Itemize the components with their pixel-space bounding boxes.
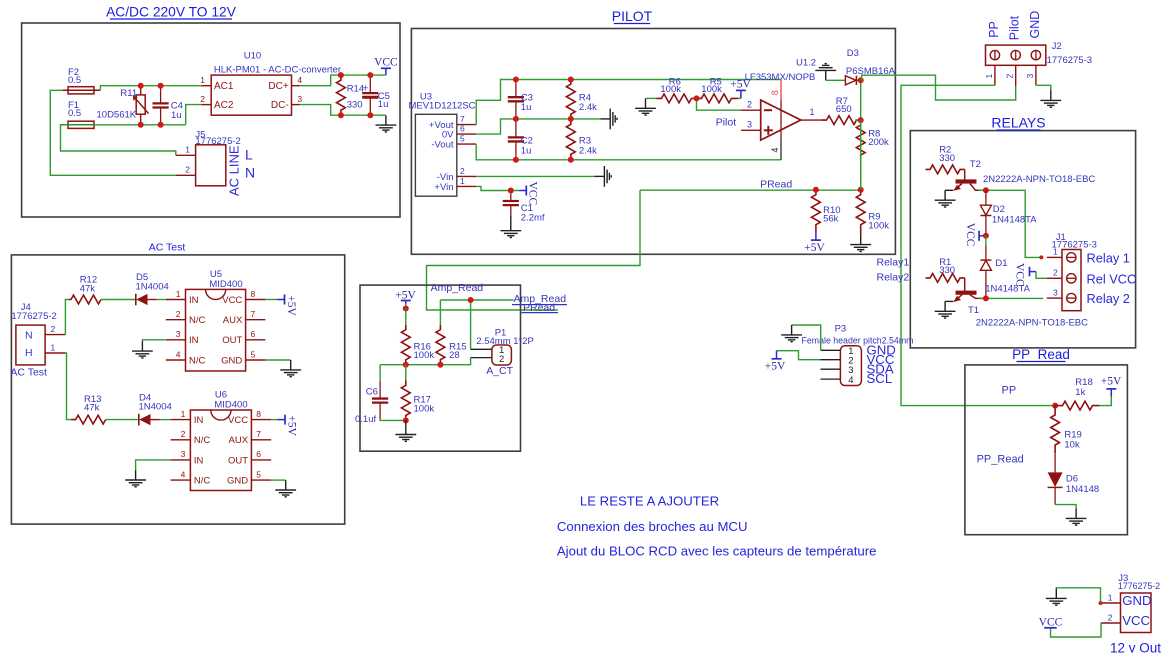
capacitor C5 — [369, 75, 371, 93]
wire -Vout bottom rail to op-amp pin4 — [476, 144, 781, 160]
wire C6 to R17 bottom — [380, 419, 406, 422]
svg-text:MID400: MID400 — [209, 279, 242, 290]
svg-text:4: 4 — [297, 75, 302, 85]
svg-text:8: 8 — [770, 90, 780, 95]
junction node VCC D1 D2 — [983, 233, 989, 239]
resistor R6 — [646, 97, 657, 99]
U1.2 pin 3 non-inverting — [741, 129, 761, 131]
svg-text:VCC: VCC — [374, 56, 398, 68]
svg-text:2: 2 — [460, 166, 465, 176]
svg-text:8: 8 — [256, 409, 261, 419]
connector J2 1776275-3 — [986, 45, 1046, 65]
svg-text:GND: GND — [221, 355, 242, 366]
svg-text:1N4004: 1N4004 — [139, 402, 172, 413]
diode D2 1N4148TA — [985, 190, 987, 205]
svg-text:2: 2 — [499, 354, 504, 365]
svg-text:VCC: VCC — [1039, 616, 1063, 628]
resistor R3 — [566, 119, 575, 160]
wire F2 to J5 pin2 — [50, 90, 176, 175]
svg-text:1: 1 — [51, 342, 56, 352]
U1.2 pin 2 inverting — [741, 109, 761, 111]
P3 pin 2 — [820, 359, 840, 361]
connector J3 1776275-2 — [1121, 593, 1152, 633]
junction node R6 R5 — [694, 95, 700, 101]
wire R18 to +5V — [1100, 397, 1112, 406]
svg-text:R11: R11 — [120, 88, 137, 99]
U5 pin 7 AUX — [246, 319, 266, 321]
P3 pin 4 — [820, 378, 840, 380]
junction node J3 pin1 — [1099, 601, 1103, 605]
ground — [595, 166, 612, 187]
svg-text:Female header pitch2.54mm: Female header pitch2.54mm — [802, 336, 914, 346]
svg-text:GND: GND — [227, 476, 248, 487]
resistor R8 — [856, 120, 865, 160]
wire 0V middle rail — [476, 119, 600, 134]
svg-text:+5V: +5V — [804, 242, 825, 254]
power VCC — [979, 235, 986, 237]
U6 pin 6 OUT — [251, 459, 271, 461]
wire U5 pin5 to ground — [265, 359, 290, 361]
ground — [935, 190, 956, 207]
svg-text:MEV1D1212SC: MEV1D1212SC — [408, 101, 475, 112]
connector J1 1776275-3 — [1062, 250, 1081, 311]
svg-text:1u: 1u — [521, 102, 532, 113]
ground — [935, 301, 956, 318]
wire P3 pin1 to ground — [792, 325, 821, 350]
svg-text:1: 1 — [181, 409, 186, 419]
svg-text:D2: D2 — [993, 204, 1005, 215]
svg-text:2.2mf: 2.2mf — [521, 212, 545, 223]
svg-text:3: 3 — [297, 94, 302, 104]
svg-text:7: 7 — [256, 429, 261, 439]
wire F2 to AC1 top rail — [100, 86, 201, 91]
svg-text:+Vin: +Vin — [434, 182, 453, 193]
svg-text:4: 4 — [848, 375, 853, 386]
resistor R10 — [812, 190, 821, 232]
U6 pin 2 N/C — [171, 439, 191, 441]
svg-text:Relay1: Relay1 — [877, 257, 910, 269]
svg-text:6: 6 — [251, 329, 256, 339]
U5 pin 5 GND — [246, 359, 266, 361]
svg-text:0.5: 0.5 — [68, 75, 81, 86]
svg-text:L: L — [245, 147, 253, 163]
U10 pin 2 AC2 — [201, 104, 211, 106]
svg-text:P3: P3 — [835, 324, 847, 335]
svg-text:N/C: N/C — [194, 476, 211, 487]
J2 pin 3 — [1035, 65, 1037, 85]
svg-text:GND: GND — [1122, 593, 1151, 608]
junction node R15 bottom — [437, 362, 443, 368]
svg-text:A_CT: A_CT — [486, 365, 513, 377]
block RELAYS — [910, 131, 1135, 348]
svg-text:-Vout: -Vout — [431, 140, 454, 151]
U5 pin 1 IN — [166, 299, 186, 301]
ground — [850, 235, 871, 252]
svg-text:D1: D1 — [995, 258, 1007, 269]
wire J2 pin3 to ground — [1036, 85, 1051, 91]
ground — [395, 420, 416, 441]
J2 terminal 1 — [990, 50, 999, 59]
svg-text:1N4148: 1N4148 — [1066, 484, 1099, 495]
wire PRead rail — [640, 189, 861, 191]
svg-text:3: 3 — [176, 329, 181, 339]
component U5 MID400 — [186, 289, 246, 371]
P1 pin 2 — [471, 357, 492, 359]
J1 pin 1 — [1047, 256, 1062, 258]
svg-text:4: 4 — [770, 148, 780, 153]
svg-text:LE RESTE A AJOUTER: LE RESTE A AJOUTER — [580, 494, 719, 509]
svg-text:330: 330 — [939, 153, 955, 164]
svg-text:4: 4 — [176, 349, 181, 359]
capacitor C3 — [515, 80, 517, 98]
svg-text:PRead: PRead — [760, 178, 792, 190]
svg-text:IN: IN — [194, 455, 204, 466]
power +5V — [776, 351, 778, 359]
wire AC2 to bottom rail — [186, 105, 202, 125]
component U3 MEV1D1212SC — [415, 114, 456, 196]
svg-text:DC+: DC+ — [268, 81, 288, 92]
junction node P1 branch — [468, 297, 474, 303]
wire P1 pin2 mid rail — [380, 358, 471, 365]
svg-text:PP: PP — [1002, 385, 1017, 397]
U5 pin 6 OUT — [246, 339, 266, 341]
wire J3 pin2 to VCC — [1051, 623, 1102, 637]
svg-text:DC-: DC- — [271, 100, 289, 111]
svg-text:HLK-PM01 - AC-DC-converter: HLK-PM01 - AC-DC-converter — [214, 65, 341, 76]
svg-text:Relay 2: Relay 2 — [1087, 291, 1130, 306]
svg-text:PP_Read: PP_Read — [977, 454, 1024, 466]
svg-text:MID400: MID400 — [214, 400, 247, 411]
power VCC — [520, 190, 527, 192]
svg-text:OUT: OUT — [228, 455, 248, 466]
svg-text:AUX: AUX — [223, 315, 243, 326]
svg-text:AC2: AC2 — [214, 100, 234, 111]
svg-text:1: 1 — [1108, 592, 1113, 602]
J5 pin 2 — [176, 174, 196, 176]
svg-text:N: N — [245, 164, 255, 180]
U6 pin 1 IN — [171, 419, 191, 421]
J2 pin 1 — [994, 65, 996, 85]
wire R12 to D5 — [101, 299, 136, 301]
P3 pin 3 — [820, 368, 840, 370]
ground — [600, 109, 617, 130]
ground — [132, 341, 153, 358]
svg-text:IN: IN — [189, 295, 199, 306]
ground — [275, 480, 296, 497]
svg-text:47k: 47k — [84, 402, 100, 413]
power +5V — [738, 97, 741, 99]
fuse F1 — [61, 124, 95, 126]
svg-text:1: 1 — [200, 75, 205, 85]
svg-text:1776275-3: 1776275-3 — [1047, 55, 1092, 66]
U5 pin 2 N/C — [166, 319, 186, 321]
svg-text:AUX: AUX — [229, 435, 249, 446]
svg-text:100k: 100k — [701, 84, 722, 95]
resistor R19 — [1051, 406, 1060, 454]
J1 terminal 1 — [1067, 253, 1076, 262]
svg-text:2N2222A-NPN-TO18-EBC: 2N2222A-NPN-TO18-EBC — [976, 317, 1088, 328]
svg-text:12 v Out: 12 v Out — [1110, 641, 1161, 656]
wire +Vin to VCC — [476, 186, 519, 190]
svg-text:VCC: VCC — [1014, 263, 1026, 287]
svg-text:+5V: +5V — [286, 415, 298, 436]
wire T1 emitter to ground — [945, 300, 953, 302]
svg-text:1: 1 — [810, 107, 815, 117]
wire T1 collector to J1 pin3 — [979, 297, 1044, 299]
svg-text:Amp_Read: Amp_Read — [431, 282, 484, 294]
svg-text:5: 5 — [460, 134, 465, 144]
svg-text:1k: 1k — [1075, 387, 1085, 398]
svg-text:2.4k: 2.4k — [579, 102, 597, 113]
U1.2 pin 1 output — [801, 119, 825, 121]
U5 pin 8 VCC — [246, 299, 266, 301]
wire P3 pin2 to +5V — [777, 351, 821, 360]
block Amp_Read — [360, 285, 521, 451]
junction node PP — [1052, 403, 1058, 409]
ground — [635, 98, 656, 115]
svg-text:C6: C6 — [366, 386, 378, 397]
svg-text:J2: J2 — [1052, 41, 1062, 52]
J5 pin 1 — [176, 154, 196, 156]
svg-text:VCC: VCC — [222, 295, 242, 306]
svg-text:Amp_Read: Amp_Read — [514, 293, 567, 305]
junction node R16 bottom — [403, 362, 409, 368]
wire U6 pin3 to ground — [136, 460, 171, 470]
J2 terminal 3 — [1031, 50, 1040, 59]
wire PP J2 pin1 down to PP_Read — [901, 85, 1055, 405]
junction node R7 R8 — [858, 117, 864, 123]
junction dots U3 area — [513, 77, 519, 83]
svg-text:N/C: N/C — [194, 435, 211, 446]
svg-text:650: 650 — [836, 104, 852, 115]
power +5V — [1110, 389, 1112, 397]
resistor R1 — [926, 274, 965, 283]
svg-text:2: 2 — [185, 165, 190, 175]
svg-text:100k: 100k — [660, 84, 681, 95]
svg-text:PILOT: PILOT — [612, 8, 653, 24]
ground — [1046, 589, 1067, 606]
diode D1 1N4148TA — [985, 236, 987, 246]
ground — [280, 360, 301, 377]
ground — [510, 216, 512, 221]
svg-text:2.4k: 2.4k — [579, 145, 597, 156]
svg-text:6: 6 — [256, 449, 261, 459]
svg-text:47k: 47k — [80, 283, 96, 294]
junction node J1 pin1 — [1039, 255, 1043, 259]
svg-text:IN: IN — [194, 415, 204, 426]
svg-text:AC/DC 220V TO 12V: AC/DC 220V TO 12V — [106, 5, 237, 20]
svg-text:1: 1 — [185, 145, 190, 155]
svg-text:LF353MX/NOPB: LF353MX/NOPB — [745, 72, 816, 83]
transistor T2 2N2222A — [964, 169, 966, 179]
svg-text:Connexion des broches au MCU: Connexion des broches au MCU — [557, 519, 748, 534]
svg-text:1776275-2: 1776275-2 — [11, 311, 56, 322]
component U6 MID400 — [190, 410, 251, 491]
svg-text:7: 7 — [251, 309, 256, 319]
U10 pin 4 DC+ — [292, 85, 300, 87]
ground inverted above D3 — [815, 64, 836, 81]
transistor T1 2N2222A — [964, 278, 966, 291]
svg-text:Ajout du BLOC RCD avec les cap: Ajout du BLOC RCD avec les capteurs de t… — [557, 544, 877, 559]
svg-text:AC Test: AC Test — [149, 242, 186, 254]
resistor R7 — [822, 116, 861, 125]
svg-text:2.54mm 1*2P: 2.54mm 1*2P — [476, 336, 534, 347]
U6 pin 7 AUX — [251, 439, 271, 441]
power +5V — [815, 232, 817, 240]
svg-text:AC LINE: AC LINE — [227, 145, 242, 196]
connector P1 2.54mm 1*2P — [492, 345, 512, 365]
junction node R16 top — [403, 306, 409, 312]
svg-text:1776275-3: 1776275-3 — [1052, 239, 1097, 250]
J4 pin 1 — [45, 352, 65, 354]
svg-text:2: 2 — [176, 309, 181, 319]
svg-text:3: 3 — [1025, 74, 1035, 79]
svg-text:H: H — [25, 347, 33, 359]
block AC/DC 220V TO 12V — [22, 23, 400, 217]
svg-text:2: 2 — [200, 94, 205, 104]
svg-text:1u: 1u — [521, 145, 532, 156]
wire Pilot D3 to J2 pin2 — [861, 75, 1016, 100]
svg-text:10D561K: 10D561K — [97, 109, 137, 120]
connector J4 1776275-2 — [16, 325, 45, 365]
U6 pin 4 N/C — [171, 479, 191, 481]
svg-text:2N2222A-NPN-TO18-EBC: 2N2222A-NPN-TO18-EBC — [983, 174, 1095, 185]
U6 pin 5 GND — [251, 479, 271, 481]
svg-text:RELAYS: RELAYS — [991, 115, 1045, 131]
svg-text:5: 5 — [256, 469, 261, 479]
U5 pin 4 N/C — [166, 359, 186, 361]
svg-text:VCC: VCC — [527, 182, 539, 206]
J4 pin 2 — [45, 334, 65, 336]
svg-text:+5V: +5V — [395, 290, 416, 302]
svg-text:200k: 200k — [868, 137, 889, 148]
wire R8 vertical — [860, 120, 862, 190]
junction node D3 — [858, 77, 864, 83]
svg-text:N/C: N/C — [189, 315, 206, 326]
wire D5 to U5 pin1 — [157, 299, 166, 301]
junction node R10 — [813, 187, 819, 193]
U6 pin 3 IN — [171, 459, 191, 461]
J2 terminal 2 — [1011, 50, 1020, 59]
svg-text:1: 1 — [460, 176, 465, 186]
P1 pin 1 — [471, 348, 492, 350]
svg-text:AC Test: AC Test — [10, 367, 47, 379]
svg-text:2: 2 — [1005, 74, 1015, 79]
svg-text:D3: D3 — [847, 48, 859, 59]
svg-text:1N4148TA: 1N4148TA — [992, 215, 1037, 226]
block PP_Read — [965, 365, 1128, 535]
U3 pin 5 -Vout — [457, 143, 476, 145]
svg-text:1u: 1u — [378, 99, 389, 110]
svg-text:+5V: +5V — [1101, 375, 1122, 387]
svg-text:SCL: SCL — [867, 371, 893, 386]
svg-text:OUT: OUT — [222, 335, 242, 346]
wire R13 to D4 — [106, 419, 139, 421]
wire +5V to R16 — [405, 304, 407, 309]
capacitor C2 — [515, 119, 517, 137]
U10 pin 3 DC- — [292, 104, 300, 106]
svg-text:100k: 100k — [414, 403, 435, 414]
svg-text:100k: 100k — [414, 350, 435, 361]
wire U5 pin8 to +5V — [265, 299, 277, 301]
wire to P1 pin1 — [470, 300, 472, 349]
ground — [1066, 509, 1087, 526]
P3 pin 1 — [820, 349, 840, 351]
svg-text:VCC: VCC — [228, 415, 248, 426]
ground — [125, 470, 146, 487]
component U10 HLK-PM01 AC-DC-converter — [211, 75, 291, 115]
U3 pin 2 -Vin — [457, 175, 476, 177]
capacitor C1 — [510, 191, 512, 202]
svg-text:+5V: +5V — [765, 361, 786, 373]
svg-text:1: 1 — [984, 74, 994, 79]
ground — [781, 325, 802, 342]
svg-text:Pilot: Pilot — [1008, 15, 1022, 40]
svg-text:4: 4 — [181, 469, 186, 479]
svg-text:330: 330 — [347, 100, 363, 111]
resistor R16 — [405, 309, 407, 325]
svg-text:100k: 100k — [868, 220, 889, 231]
junction node R17 bottom — [403, 417, 409, 423]
U6 pin 8 VCC — [251, 419, 271, 421]
J1 pin 3 — [1047, 297, 1062, 299]
svg-text:Relay2: Relay2 — [877, 271, 910, 283]
svg-text:Relay 1: Relay 1 — [1087, 251, 1130, 266]
U3 pin 1 +Vin — [457, 185, 476, 187]
resistor R2 — [926, 165, 965, 174]
wire to C6 — [379, 365, 381, 382]
svg-text:U1.2: U1.2 — [796, 58, 816, 69]
ground — [376, 115, 397, 132]
svg-text:330: 330 — [939, 265, 955, 276]
resistor R17 — [405, 365, 407, 381]
svg-text:2: 2 — [747, 100, 752, 110]
wire J4 pin2 up to R12 — [65, 300, 69, 335]
svg-text:5: 5 — [251, 349, 256, 359]
svg-text:GND: GND — [1028, 11, 1042, 39]
wire R6 R5 junction to op-amp pin2 — [697, 98, 742, 110]
svg-text:Pilot: Pilot — [716, 116, 737, 128]
svg-text:6: 6 — [460, 124, 465, 134]
resistor R18 — [1055, 401, 1100, 410]
junction node R9 — [858, 187, 864, 193]
connector P3 female header — [840, 346, 861, 386]
J1 pin 2 — [1047, 277, 1062, 279]
wire R7 to node — [855, 119, 861, 121]
power VCC — [385, 68, 387, 75]
wire F1 to J5 pin1 — [61, 125, 176, 156]
wire DC- to ground rail — [300, 105, 386, 116]
svg-text:IN: IN — [189, 335, 199, 346]
svg-text:T2: T2 — [970, 159, 981, 170]
resistor R15 — [439, 300, 441, 325]
wire DC+ to VCC rail — [300, 75, 386, 86]
svg-text:VCC: VCC — [1122, 613, 1150, 628]
svg-text:1: 1 — [1053, 247, 1058, 257]
junction node T2 collector — [983, 187, 989, 193]
wire J3 pin1 to ground — [1056, 588, 1100, 603]
svg-text:1N4004: 1N4004 — [136, 281, 169, 292]
J3 pin 1 — [1101, 602, 1121, 604]
svg-text:+5V: +5V — [285, 295, 297, 316]
svg-text:PP_Read: PP_Read — [1012, 347, 1070, 362]
wire ground to D3 anode — [826, 79, 846, 81]
U1.2 pin 4 power — [780, 140, 782, 160]
diode D6 1N4148 — [1054, 453, 1056, 472]
svg-text:PP: PP — [987, 21, 1001, 38]
fuse F2 — [63, 89, 100, 91]
svg-text:VCC: VCC — [964, 223, 976, 247]
